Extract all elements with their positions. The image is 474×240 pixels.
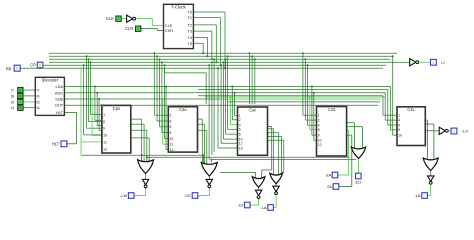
svg-text:9: 9: [239, 133, 241, 137]
svg-text:9: 9: [103, 127, 105, 131]
svg-text:I7: I7: [37, 89, 40, 93]
svg-text:T3: T3: [188, 29, 193, 34]
svg-text:9: 9: [318, 134, 320, 138]
svg-text:Ep: Ep: [6, 66, 12, 71]
svg-text:5: 5: [170, 125, 172, 129]
svg-text:Cai: Cai: [249, 107, 255, 112]
svg-text:1: 1: [103, 113, 105, 117]
svg-text:HLT: HLT: [52, 141, 60, 146]
svg-text:5: 5: [239, 128, 241, 132]
svg-text:10: 10: [170, 137, 174, 141]
svg-text:10: 10: [103, 133, 107, 137]
svg-text:-LM: -LM: [120, 193, 127, 198]
svg-text:HLT: HLT: [56, 110, 64, 115]
svg-text:2: 2: [239, 118, 241, 122]
svg-text:C42: C42: [328, 107, 336, 112]
svg-text:Cps: Cps: [113, 106, 120, 111]
svg-text:I5: I5: [37, 100, 40, 104]
svg-text:12: 12: [170, 143, 174, 147]
svg-text:4: 4: [239, 123, 241, 127]
svg-text:4: 4: [170, 119, 172, 123]
svg-text:9: 9: [398, 128, 400, 132]
svg-text:13: 13: [170, 148, 174, 152]
svg-text:0: 0: [20, 88, 22, 92]
svg-text:I4: I4: [37, 106, 40, 110]
svg-text:-CE: -CE: [184, 193, 191, 198]
svg-text:0: 0: [137, 27, 139, 31]
svg-text:0: 0: [16, 67, 18, 71]
svg-text:I5: I5: [11, 100, 14, 104]
svg-text:OUT: OUT: [55, 103, 64, 108]
svg-text:4: 4: [398, 119, 400, 123]
svg-text:9: 9: [170, 131, 172, 135]
svg-text:T2: T2: [188, 22, 193, 27]
svg-text:I4: I4: [11, 106, 14, 110]
svg-text:C4L: C4L: [407, 107, 415, 112]
svg-text:-LO: -LO: [462, 129, 469, 134]
svg-text:IDecoder: IDecoder: [42, 78, 59, 83]
svg-text:0: 0: [20, 94, 22, 98]
svg-text:-LB: -LB: [414, 193, 421, 198]
svg-text:I6: I6: [11, 94, 14, 98]
svg-text:CLR: CLR: [125, 26, 133, 31]
svg-text:0: 0: [39, 64, 41, 68]
svg-text:T1: T1: [188, 15, 193, 20]
svg-text:12: 12: [239, 142, 243, 146]
svg-text:I6: I6: [37, 94, 40, 98]
svg-text:1: 1: [170, 114, 172, 118]
svg-text:5: 5: [318, 128, 320, 132]
svg-text:EU: EU: [356, 180, 362, 185]
svg-text:13: 13: [103, 147, 107, 151]
svg-text:L2: L2: [441, 61, 445, 65]
svg-text:1: 1: [239, 114, 241, 118]
svg-text:12: 12: [318, 143, 322, 147]
svg-text:CLK: CLK: [106, 16, 114, 21]
svg-text:Cao: Cao: [179, 107, 187, 112]
svg-text:8: 8: [103, 120, 105, 124]
svg-text:I7: I7: [11, 89, 14, 93]
svg-text:T-Clock: T-Clock: [171, 5, 186, 10]
svg-text:5: 5: [398, 123, 400, 127]
svg-text:2: 2: [318, 119, 320, 123]
svg-text:-EI: -EI: [238, 203, 243, 208]
svg-text:1: 1: [318, 114, 320, 118]
svg-text:12: 12: [103, 140, 107, 144]
svg-text:10: 10: [318, 139, 322, 143]
svg-text:1: 1: [398, 114, 400, 118]
svg-text:T5: T5: [188, 41, 193, 46]
svg-text:10: 10: [398, 134, 402, 138]
svg-text:LDA: LDA: [56, 84, 64, 89]
svg-text:4: 4: [318, 124, 320, 128]
svg-text:1: 1: [20, 100, 22, 104]
svg-text:-LA: -LA: [260, 205, 267, 210]
svg-text:ADD: ADD: [55, 90, 63, 95]
svg-text:SU: SU: [327, 184, 333, 189]
svg-text:1: 1: [453, 130, 455, 134]
svg-text:13: 13: [239, 146, 243, 150]
svg-text:EA: EA: [326, 173, 332, 178]
svg-text:CP: CP: [30, 62, 36, 67]
svg-text:1: 1: [432, 61, 434, 65]
svg-text:0: 0: [118, 17, 120, 21]
svg-text:CKR: CKR: [165, 28, 173, 33]
svg-text:0: 0: [20, 106, 22, 110]
svg-text:SUB: SUB: [55, 97, 63, 102]
